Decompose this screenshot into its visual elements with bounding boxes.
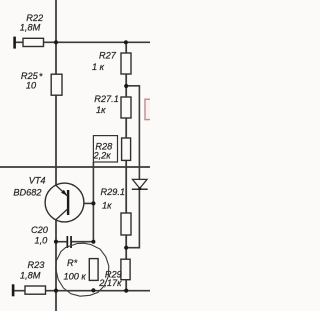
resistor R27: [121, 53, 131, 74]
svg-text:1к: 1к: [102, 201, 112, 211]
node main top junction: [124, 40, 128, 44]
svg-text:R29.1: R29.1: [101, 187, 126, 197]
resistor R28: [122, 138, 131, 160]
wire top rail y=42.3: [15, 41, 150, 43]
resistor R22: [23, 38, 44, 46]
wire main vertical x=126.2: [125, 42, 127, 290]
svg-text:R27: R27: [99, 51, 117, 61]
transistor VT4: [45, 183, 84, 222]
svg-text:1,8M: 1,8M: [20, 22, 41, 32]
node base junction: [91, 201, 95, 205]
node R29 bottom: [124, 289, 128, 293]
svg-text:2,17к: 2,17к: [98, 278, 122, 288]
annotation circle around R*: [56, 243, 109, 296]
svg-text:100 к: 100 к: [64, 272, 87, 282]
svg-text:1,8M: 1,8M: [20, 270, 41, 280]
terminal of R23: [12, 284, 15, 296]
resistor R*: [89, 259, 98, 281]
wire base lead of VT4: [68, 202, 93, 204]
emitter diagonal with arrow into bar: [56, 185, 68, 196]
diode VD: [133, 179, 148, 188]
resistor R23: [25, 286, 46, 294]
svg-text:C20: C20: [31, 225, 49, 235]
node R23 junction: [54, 289, 58, 293]
base bar: [67, 190, 69, 215]
resistor R29.1: [121, 213, 131, 235]
svg-text:1к: 1к: [96, 105, 106, 115]
wire capacitor branch right part: [72, 241, 94, 243]
node below R29.1: [124, 246, 128, 250]
node below R27: [124, 84, 128, 88]
wire bottom rail y=290.6: [14, 290, 150, 292]
collector diagonal: [56, 209, 68, 220]
svg-text:R25: R25: [21, 71, 39, 81]
svg-text:R*: R*: [67, 258, 78, 268]
svg-text:1,0: 1,0: [35, 236, 49, 246]
capacitor C20: [67, 236, 69, 248]
svg-text:2,2к: 2,2к: [93, 151, 112, 161]
node R* bottom: [91, 288, 95, 292]
svg-text:VT4: VT4: [29, 176, 46, 186]
resistor R29: [121, 259, 130, 280]
wire base branch x=93.4: [92, 162, 94, 242]
node cap/base/R* corner: [91, 240, 95, 244]
svg-text:10: 10: [26, 81, 37, 91]
wire vertical line A x=56: [55, 0, 57, 311]
resistor R27.1: [121, 97, 131, 118]
node A top junction: [54, 40, 58, 44]
terminal of R22: [13, 37, 16, 49]
svg-text:R23: R23: [28, 260, 46, 270]
svg-text:R27.1: R27.1: [94, 94, 119, 104]
wire diode branch from node below R27 down to node below R29.1: [126, 86, 139, 248]
wire capacitor branch y=241.7 left part: [56, 241, 67, 243]
resistor R25: [51, 74, 62, 95]
node emitter/cap junction: [54, 240, 58, 244]
highlight box (pink) at right edge: [145, 99, 153, 119]
svg-text:BD682: BD682: [13, 188, 41, 198]
svg-text:*: *: [39, 72, 43, 82]
svg-text:1 к: 1 к: [92, 62, 105, 72]
annotation box around R28 label: [93, 136, 117, 162]
wire middle rail y=167: [0, 166, 150, 168]
